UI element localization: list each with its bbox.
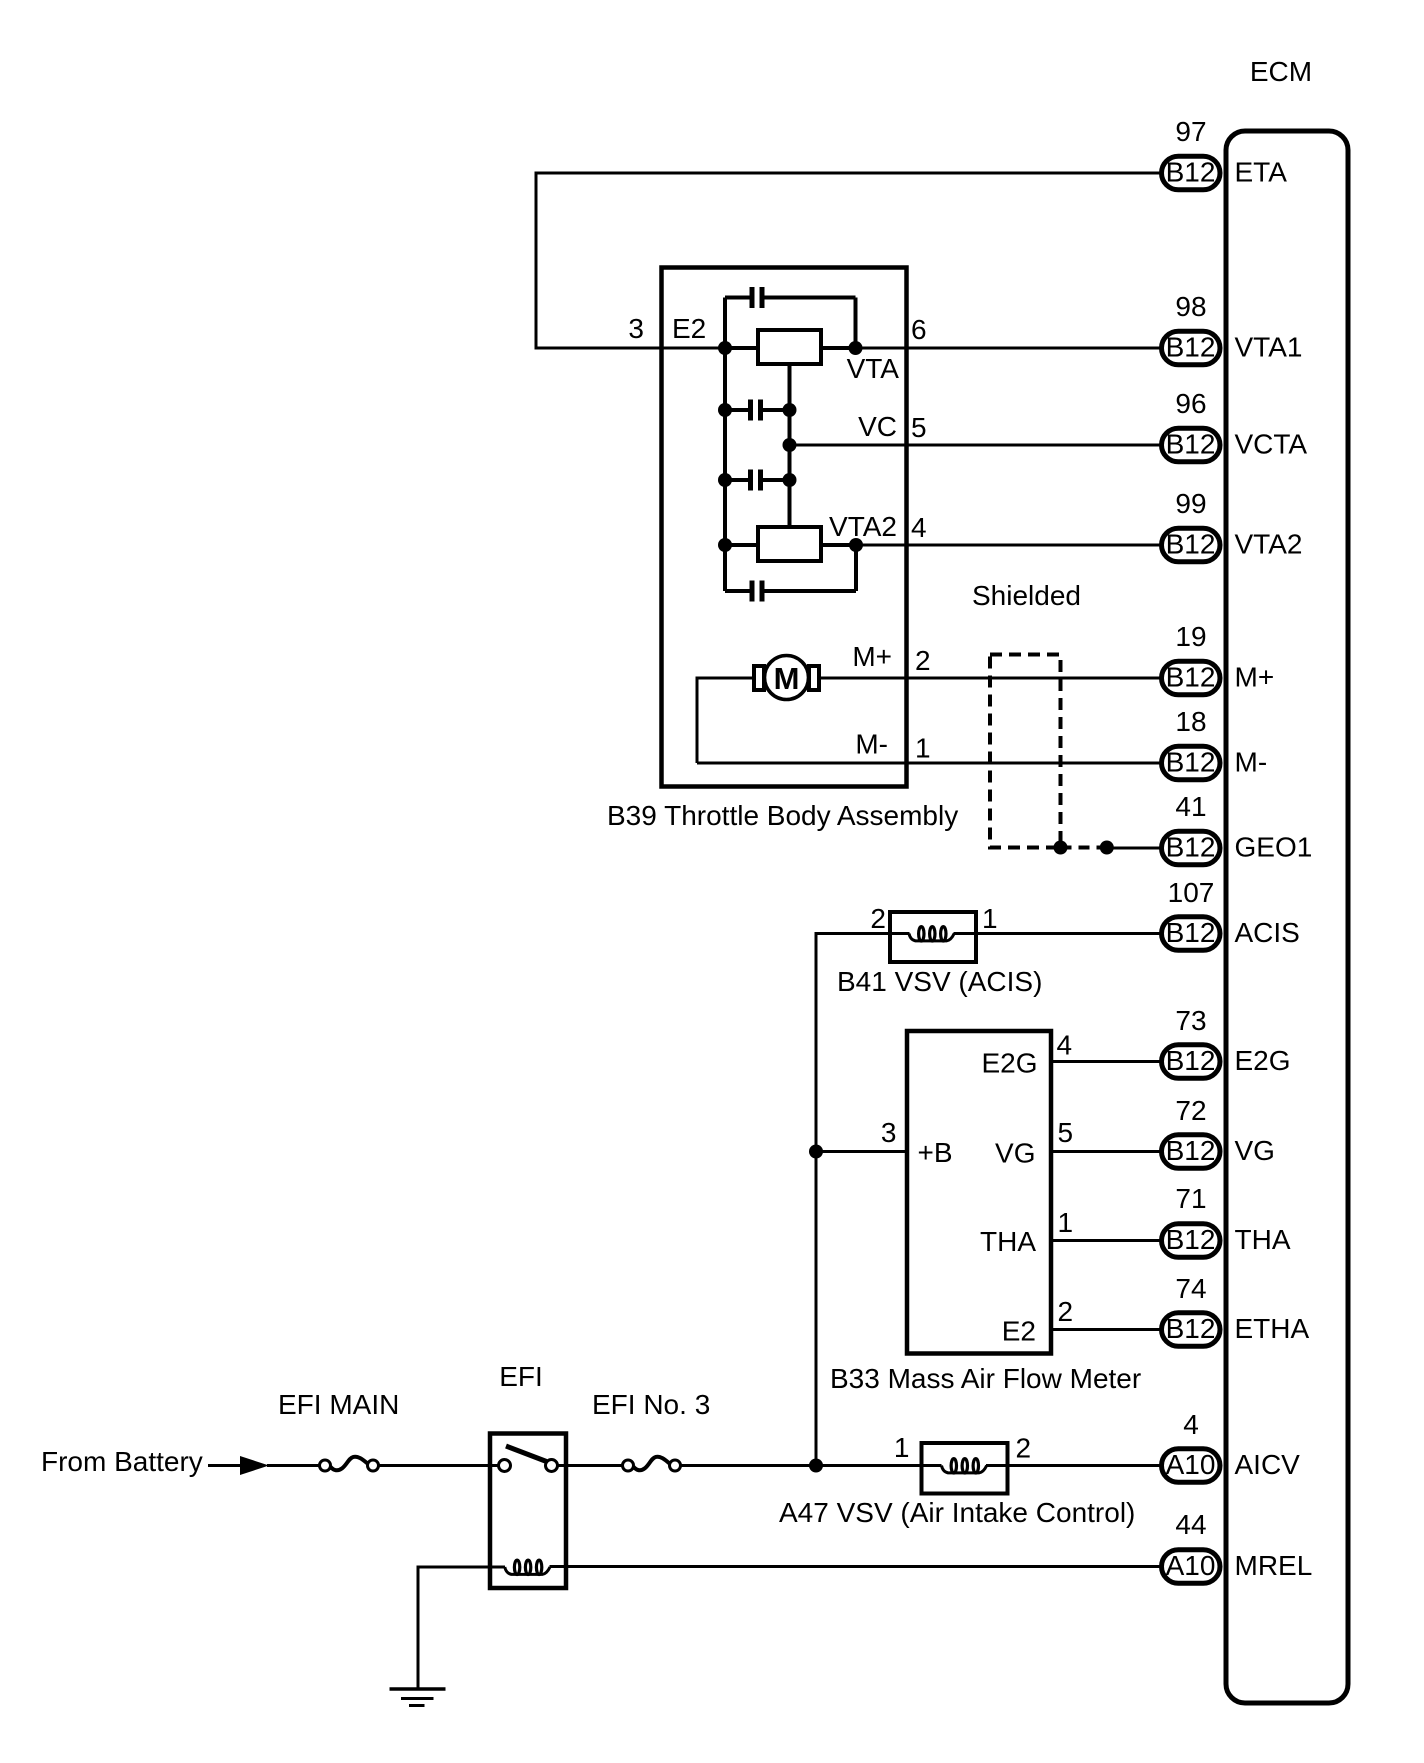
junction shield corner [1054,841,1068,855]
svg-text:A47 VSV (Air Intake Control): A47 VSV (Air Intake Control) [779,1497,1135,1528]
junction C3 left [718,473,732,487]
svg-text:3: 3 [628,313,644,344]
ECM pin 4 connector A10 terminal AICV [1162,1409,1301,1482]
wire E2 feed horizontal to throttle body pin 3 [535,347,726,350]
svg-text:VC: VC [858,411,897,442]
svg-text:E2: E2 [1002,1316,1036,1347]
svg-text:+B: +B [918,1137,953,1168]
ECM pin 98 connector B12 terminal VTA1 [1162,291,1303,365]
svg-text:71: 71 [1175,1183,1206,1214]
svg-text:ETA: ETA [1235,157,1288,188]
wire ACIS to ECM [954,932,1162,935]
junction battery feed to B41/B33 [809,1459,823,1473]
wire AICV to ECM [986,1464,1162,1467]
svg-text:B12: B12 [1166,662,1216,693]
VSV A47 box [922,1443,1008,1494]
svg-text:1: 1 [1058,1207,1074,1238]
svg-text:72: 72 [1175,1095,1206,1126]
wire VTA2 drop [854,545,858,591]
fuse EFI MAIN [320,1457,379,1471]
wire E2 lower to resistor R2 [725,543,758,547]
junction shield drain [1100,841,1114,855]
junction node E2 lower [718,538,732,552]
ECM pin 107 connector B12 terminal ACIS [1162,877,1300,950]
wire MREL to ECM [550,1565,1162,1568]
wire E2G to ECM [1051,1060,1162,1063]
svg-text:EFI MAIN: EFI MAIN [278,1389,399,1420]
svg-text:B12: B12 [1166,917,1216,948]
svg-text:M: M [774,661,800,696]
svg-text:2: 2 [1058,1296,1074,1327]
svg-text:A10: A10 [1166,1449,1216,1480]
capacitor C3 (E2 to wiper bus) [725,470,790,491]
wire fuse EFI No.3 to VSV A47 [681,1464,942,1467]
svg-text:E2: E2 [672,313,706,344]
junction C3 right [783,473,797,487]
svg-text:A10: A10 [1166,1550,1216,1581]
VSV A47 solenoid coil L2 [942,1466,987,1473]
svg-text:B12: B12 [1166,1224,1216,1255]
svg-text:B12: B12 [1166,157,1216,188]
wire VCTA to ECM [790,444,1162,447]
svg-text:4: 4 [911,512,927,543]
ECM pin 74 connector B12 terminal ETHA [1162,1273,1310,1346]
svg-text:M+: M+ [1235,662,1275,693]
svg-text:B12: B12 [1166,429,1216,460]
wire fuse to EFI relay [379,1464,499,1467]
wire arrow to fuse EFI MAIN [267,1464,320,1467]
motor M brush right [809,666,819,690]
wire B41 feed elbow down to battery line [816,934,890,1466]
svg-text:B39 Throttle Body Assembly: B39 Throttle Body Assembly [607,800,958,831]
wire VTA1 to ECM [821,346,856,350]
junction +B tap [809,1145,823,1159]
svg-text:THA: THA [980,1226,1036,1257]
svg-text:2: 2 [915,645,931,676]
svg-text:VG: VG [1235,1135,1275,1166]
svg-text:1: 1 [915,733,931,764]
svg-text:E2G: E2G [1235,1045,1291,1076]
VSV B41 box [890,912,976,962]
junction C2 right [783,403,797,417]
svg-text:2: 2 [1016,1433,1032,1464]
wire VTA2 to ECM [821,543,856,547]
wire THA to ECM [1051,1239,1162,1242]
svg-text:18: 18 [1175,706,1206,737]
ECM pin 99 connector B12 terminal VTA2 [1162,488,1303,562]
svg-text:19: 19 [1175,621,1206,652]
svg-text:E2G: E2G [981,1048,1037,1079]
ECM pin 71 connector B12 terminal THA [1162,1183,1291,1257]
svg-text:AICV: AICV [1235,1449,1301,1480]
svg-text:M+: M+ [852,641,892,672]
capacitor C4 bottom (E2 to VTA2) [725,581,856,602]
wire VG to ECM [1051,1150,1162,1153]
battery feed arrow [240,1456,269,1475]
capacitor C1 top (E2 to VTA) [725,287,856,308]
VSV B41 solenoid coil L1 [909,934,954,941]
wire relay coil left leg [418,1566,505,1569]
svg-text:4: 4 [1057,1030,1073,1061]
ECM module box [1226,131,1348,1703]
wire ground drop [417,1566,420,1690]
motor M brush left [754,666,764,690]
wire ETHA to ECM [1051,1328,1162,1331]
fuse EFI No. 3 [623,1457,681,1471]
svg-text:VTA2: VTA2 [1235,529,1303,560]
throttle body B39 box [662,268,907,787]
svg-text:GEO1: GEO1 [1235,832,1313,863]
svg-text:73: 73 [1175,1005,1206,1036]
relay switch contact left [499,1460,511,1472]
svg-text:VCTA: VCTA [1235,429,1308,460]
ECM pin 41 connector B12 terminal GEO1 [1162,791,1313,865]
EFI relay coil [505,1567,550,1574]
wire E2 to resistor R1 [725,346,758,350]
throttle motor M [765,656,809,700]
svg-text:97: 97 [1175,116,1206,147]
mass air flow meter B33 box [907,1031,1051,1354]
wire relay to fuse EFI No.3 [558,1464,623,1467]
junction node VC [783,438,797,452]
svg-text:ACIS: ACIS [1235,917,1300,948]
svg-text:1: 1 [982,903,998,934]
EFI relay box [490,1434,566,1589]
svg-text:4: 4 [1183,1409,1199,1440]
svg-text:B33 Mass Air Flow Meter: B33 Mass Air Flow Meter [830,1363,1141,1394]
svg-text:B12: B12 [1166,332,1216,363]
ECM pin 96 connector B12 terminal VCTA [1162,388,1308,462]
junction node VTA [849,341,863,355]
svg-text:44: 44 [1175,1509,1206,1540]
relay switch blade [506,1446,547,1462]
svg-text:99: 99 [1175,488,1206,519]
svg-text:6: 6 [911,314,927,345]
resistor R2 throttle sensor element VTA2 [758,527,821,561]
shield dashed drain wire [1061,846,1107,850]
svg-text:VG: VG [995,1138,1035,1169]
svg-text:B12: B12 [1166,1313,1216,1344]
ECM pin 73 connector B12 terminal E2G [1162,1005,1291,1078]
svg-text:B12: B12 [1166,832,1216,863]
wire motor left leg [697,678,754,763]
wire M+ to ECM [808,677,1162,680]
svg-text:EFI No. 3: EFI No. 3 [592,1389,710,1420]
svg-text:B12: B12 [1166,1045,1216,1076]
svg-text:THA: THA [1235,1224,1291,1255]
relay switch contact right [546,1460,558,1472]
svg-text:B12: B12 [1166,747,1216,778]
resistor R1 throttle sensor element VTA [758,330,821,364]
ground symbol [390,1689,446,1706]
svg-text:5: 5 [1058,1117,1074,1148]
ECM pin 97 connector B12 terminal ETA [1162,116,1288,190]
junction node VTA2 [849,538,863,552]
svg-text:2: 2 [870,903,886,934]
svg-text:EFI: EFI [499,1361,543,1392]
junction node E2 upper [718,341,732,355]
svg-text:B41 VSV (ACIS): B41 VSV (ACIS) [837,966,1042,997]
wire +B feed [816,1150,907,1153]
shield dashed box [990,655,1061,848]
svg-text:Shielded: Shielded [972,580,1081,611]
wire sensor left bus vertical [723,298,727,592]
svg-text:MREL: MREL [1235,1550,1313,1581]
svg-text:74: 74 [1175,1273,1206,1304]
svg-text:98: 98 [1175,291,1206,322]
svg-text:B12: B12 [1166,1135,1216,1166]
svg-text:VTA2: VTA2 [829,511,897,542]
svg-text:VTA1: VTA1 [1235,332,1303,363]
svg-text:ECM: ECM [1250,56,1312,87]
svg-text:From Battery: From Battery [41,1446,203,1477]
wire ETA pin97 horizontal [536,172,1162,175]
svg-text:VTA: VTA [847,353,900,384]
wire GEO1 to ECM [1107,847,1162,850]
wire ACIS left leg from VSV [890,932,910,935]
svg-text:M-: M- [855,729,888,760]
wire ETA left vertical [535,172,538,349]
svg-text:B12: B12 [1166,529,1216,560]
ECM pin 44 connector A10 terminal MREL [1162,1509,1313,1583]
capacitor C2 (E2 to wiper bus) [725,400,790,421]
svg-text:96: 96 [1175,388,1206,419]
svg-text:107: 107 [1168,877,1215,908]
svg-text:41: 41 [1175,791,1206,822]
wire VTA riser [854,298,858,349]
ECM pin 18 connector B12 terminal M- [1162,706,1268,780]
ECM pin 19 connector B12 terminal M+ [1162,621,1275,695]
svg-text:5: 5 [911,412,927,443]
ECM pin 72 connector B12 terminal VG [1162,1095,1275,1168]
wire sensor middle bus vertical [788,364,792,527]
svg-text:3: 3 [881,1117,897,1148]
svg-text:M-: M- [1235,747,1268,778]
svg-text:ETHA: ETHA [1235,1313,1310,1344]
svg-text:1: 1 [894,1432,910,1463]
junction C2 left [718,403,732,417]
wire M- to ECM [697,762,1162,765]
wire battery lead [208,1464,242,1467]
